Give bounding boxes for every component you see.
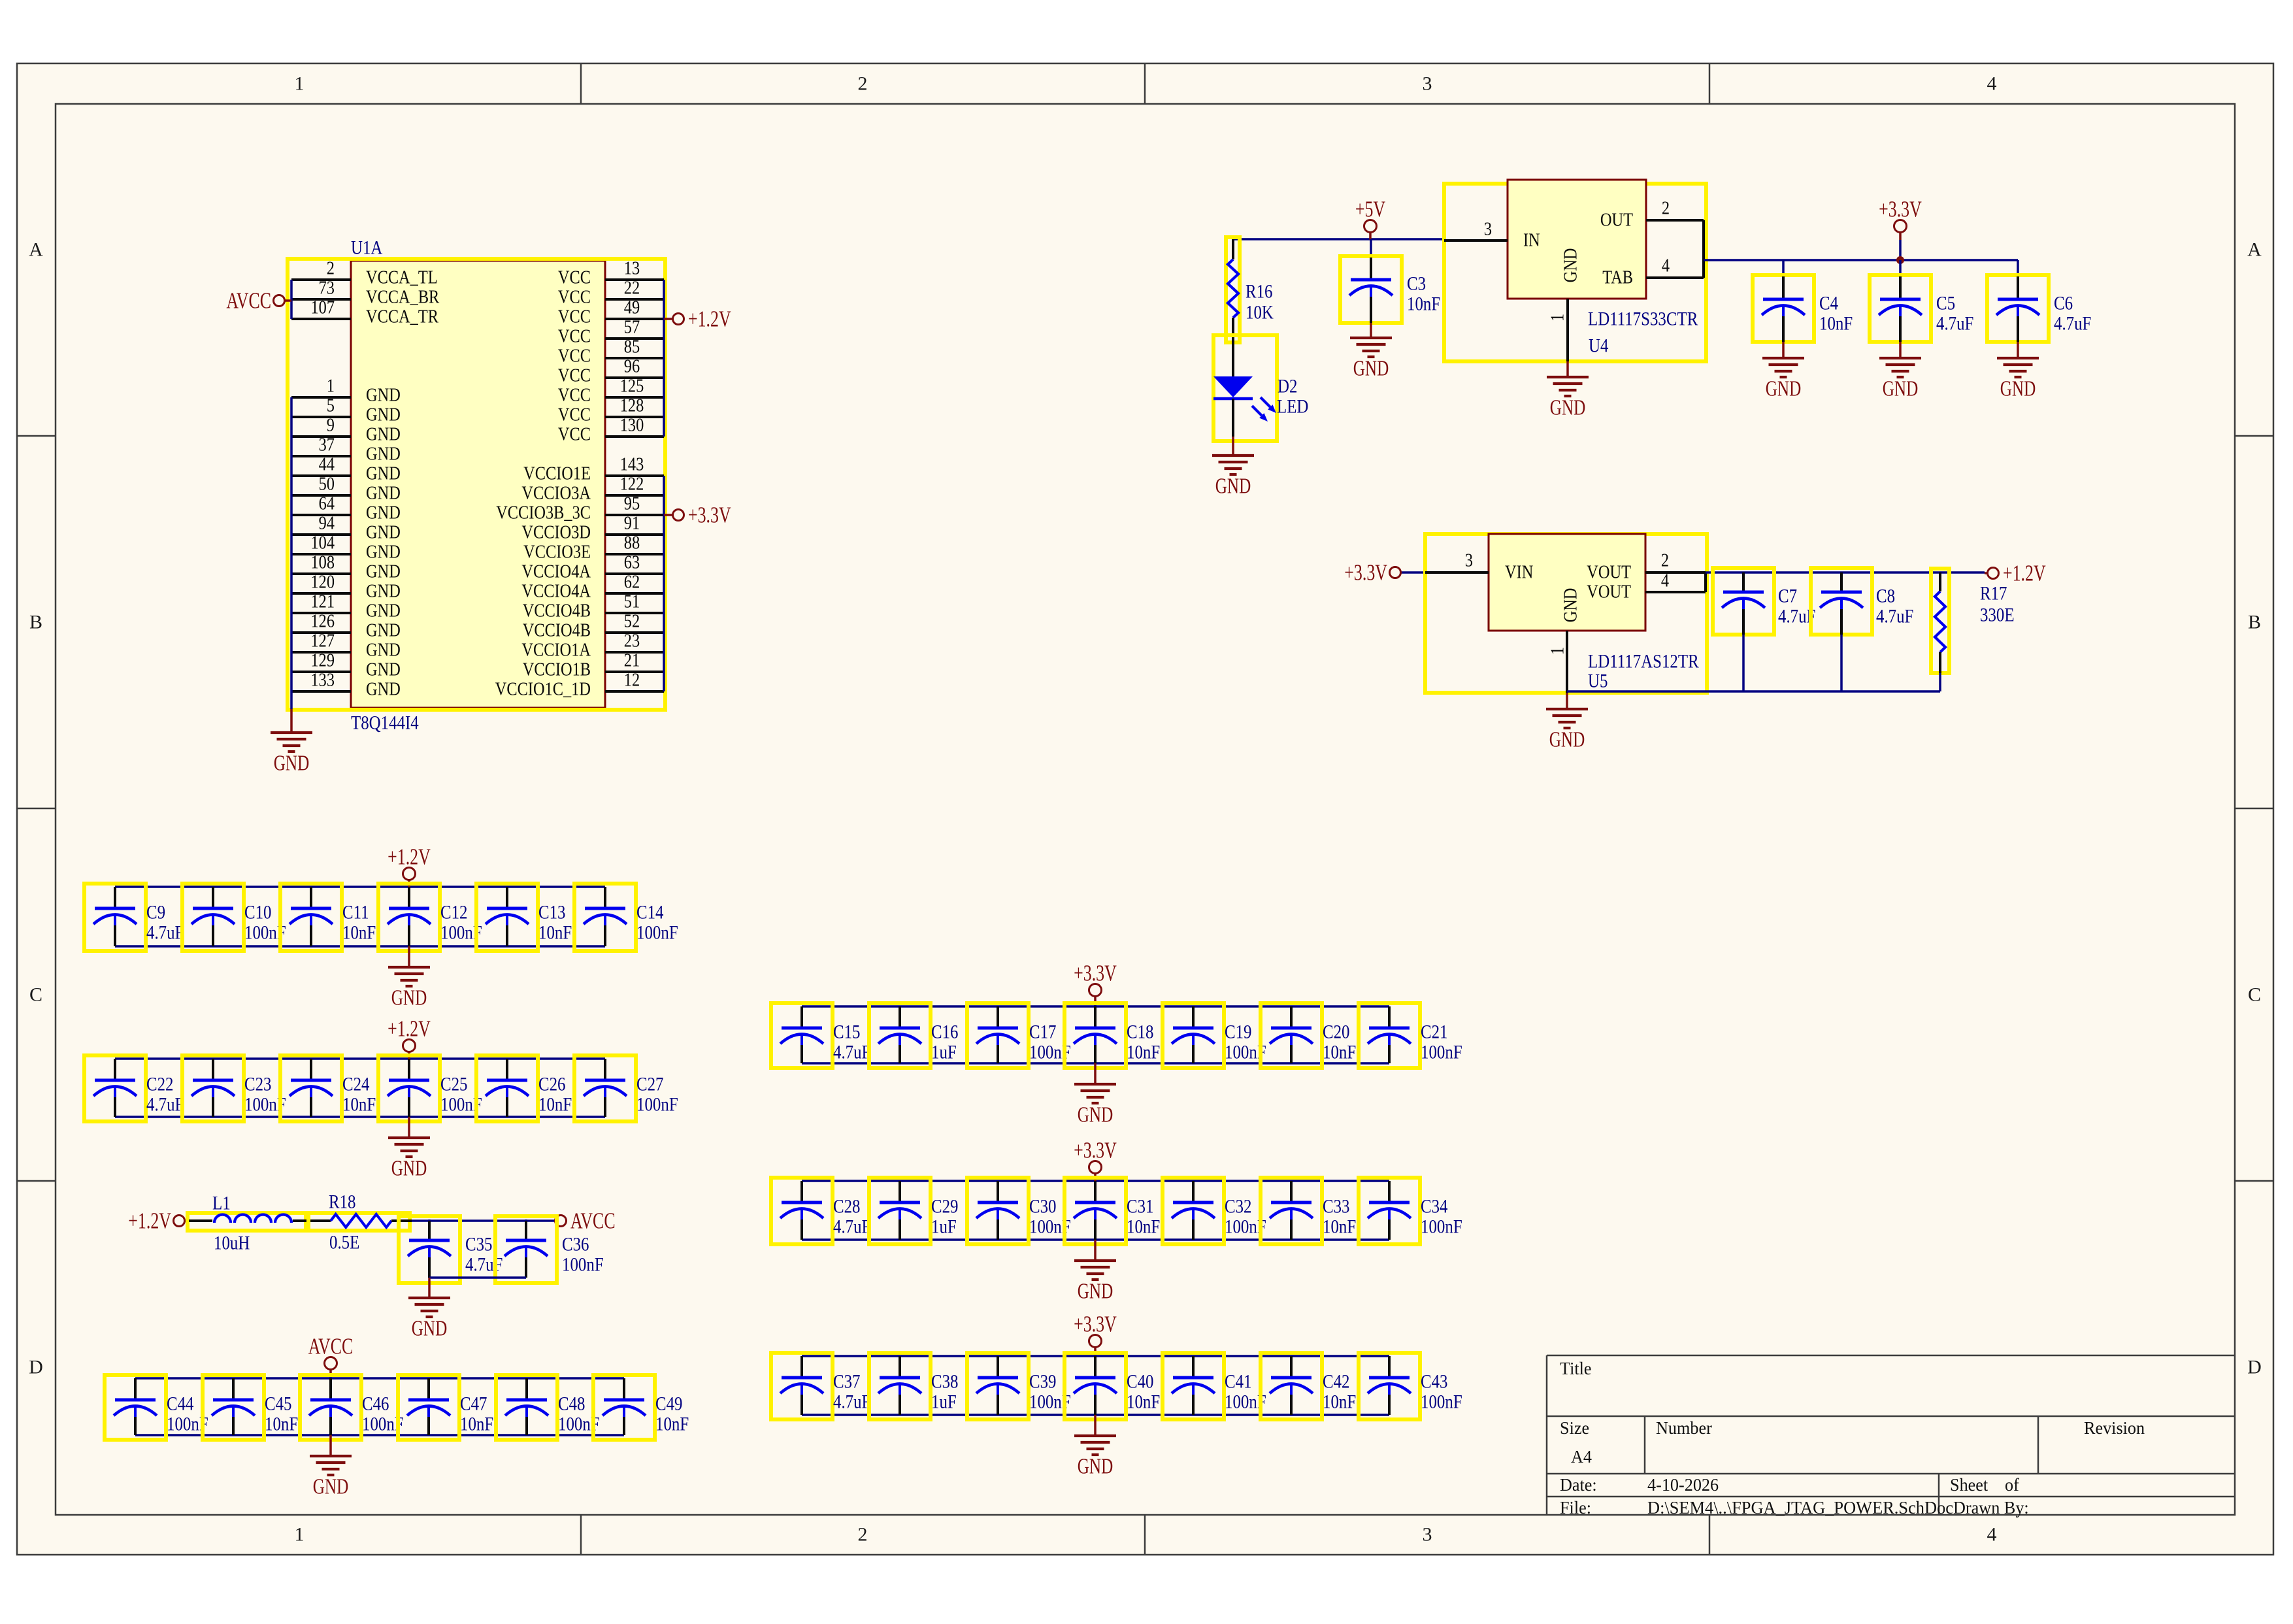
wire C36 feed bbox=[525, 1219, 527, 1221]
svg-text:C26: C26 bbox=[538, 1074, 566, 1095]
svg-text:10nF: 10nF bbox=[538, 922, 572, 944]
svg-text:127: 127 bbox=[311, 631, 335, 652]
svg-text:C17: C17 bbox=[1029, 1021, 1057, 1043]
U1A pin 104 (GND) bbox=[291, 533, 401, 563]
svg-text:AVCC: AVCC bbox=[226, 288, 271, 314]
capacitor C33 10nF bbox=[1261, 1178, 1356, 1244]
U1A pin 128 (VCC) bbox=[558, 396, 664, 425]
svg-text:5: 5 bbox=[327, 396, 335, 416]
svg-text:9: 9 bbox=[327, 416, 335, 436]
svg-text:GND: GND bbox=[313, 1475, 349, 1499]
svg-text:GND: GND bbox=[366, 425, 401, 445]
svg-text:64: 64 bbox=[319, 494, 335, 514]
capacitor C26 10nF bbox=[476, 1055, 572, 1121]
svg-text:+3.3V: +3.3V bbox=[1074, 1312, 1117, 1337]
power port +5V bbox=[1355, 197, 1385, 240]
svg-text:3: 3 bbox=[1423, 1524, 1432, 1546]
wire +3.3V-B bottom rail bbox=[802, 1238, 1389, 1241]
ground GND (AVCC bank) bbox=[310, 1435, 352, 1499]
svg-text:+1.2V: +1.2V bbox=[2003, 561, 2046, 586]
capacitor C15 4.7uF bbox=[771, 1003, 870, 1068]
junction +3.3V rail bbox=[1896, 256, 1904, 264]
svg-text:122: 122 bbox=[620, 474, 644, 495]
capacitor C14 100nF bbox=[574, 884, 678, 951]
wire +1.2V output rail bbox=[1706, 571, 1985, 574]
svg-text:C18: C18 bbox=[1127, 1021, 1154, 1043]
capacitor C25 100nF bbox=[378, 1055, 482, 1121]
power port AVCC (AVCC bank) bbox=[308, 1334, 354, 1379]
wire +3.3V-A bottom rail bbox=[802, 1062, 1389, 1065]
power port +1.2V (+1.2V-B bank) bbox=[388, 1016, 431, 1060]
svg-text:4.7uF: 4.7uF bbox=[833, 1216, 870, 1238]
capacitor C42 10nF bbox=[1261, 1353, 1356, 1419]
svg-text:VOUT: VOUT bbox=[1587, 563, 1631, 583]
svg-text:4: 4 bbox=[1987, 73, 1997, 95]
U5 pin 3 (VIN) bbox=[1425, 551, 1533, 583]
svg-text:4.7uF: 4.7uF bbox=[2054, 313, 2091, 335]
svg-text:C5: C5 bbox=[1936, 293, 1955, 314]
svg-text:File:: File: bbox=[1560, 1498, 1591, 1517]
wire C5 feed bbox=[1899, 260, 1902, 276]
svg-text:52: 52 bbox=[624, 612, 640, 632]
capacitor C37 4.7uF bbox=[771, 1353, 870, 1419]
U4 pin 3 (IN) bbox=[1444, 220, 1540, 251]
svg-text:+3.3V: +3.3V bbox=[1344, 560, 1387, 586]
svg-text:C45: C45 bbox=[265, 1393, 292, 1415]
wire +3.3V bus (U1A right) bbox=[663, 476, 665, 691]
capacitor C13 10nF bbox=[476, 884, 572, 951]
svg-text:10nF: 10nF bbox=[342, 922, 376, 944]
svg-text:VCCIO3B_3C: VCCIO3B_3C bbox=[496, 503, 591, 523]
svg-text:VOUT: VOUT bbox=[1587, 582, 1631, 603]
svg-text:A: A bbox=[2247, 239, 2262, 261]
U1A pin 88 (VCCIO3E) bbox=[523, 533, 664, 563]
svg-text:10nF: 10nF bbox=[1323, 1391, 1356, 1413]
ground GND (+3.3V-C bank) bbox=[1074, 1415, 1116, 1479]
U1A pin 96 (VCC) bbox=[558, 357, 664, 386]
svg-text:C16: C16 bbox=[931, 1021, 959, 1043]
svg-text:C31: C31 bbox=[1127, 1196, 1154, 1218]
svg-text:GND: GND bbox=[1549, 728, 1585, 752]
svg-text:C38: C38 bbox=[931, 1371, 959, 1393]
svg-text:D2: D2 bbox=[1278, 376, 1297, 397]
svg-text:C40: C40 bbox=[1127, 1371, 1154, 1393]
U1A pin 95 (VCCIO3B_3C) bbox=[496, 494, 664, 523]
svg-text:GND: GND bbox=[274, 752, 310, 776]
svg-text:C: C bbox=[2248, 984, 2261, 1006]
svg-text:VCCA_TR: VCCA_TR bbox=[366, 307, 438, 327]
wire +3.3V-A top rail bbox=[802, 1005, 1389, 1008]
power port AVCC (filter output) bbox=[555, 1208, 616, 1234]
svg-text:VCC: VCC bbox=[558, 268, 591, 288]
svg-text:22: 22 bbox=[624, 278, 640, 299]
svg-text:R17: R17 bbox=[1980, 583, 2007, 605]
svg-text:VCC: VCC bbox=[558, 386, 591, 406]
svg-text:Date:: Date: bbox=[1560, 1475, 1597, 1495]
svg-text:GND: GND bbox=[366, 444, 401, 465]
svg-text:C33: C33 bbox=[1323, 1196, 1350, 1218]
capacitor C24 10nF bbox=[280, 1055, 376, 1121]
svg-text:100nF: 100nF bbox=[1421, 1042, 1462, 1063]
U5 pin 4 (VOUT) bbox=[1587, 571, 1706, 603]
svg-text:D: D bbox=[2247, 1357, 2262, 1378]
svg-text:C34: C34 bbox=[1421, 1196, 1448, 1218]
U1A pin 120 (GND) bbox=[291, 572, 401, 602]
U4 pin 1 (GND) bbox=[1548, 248, 1581, 361]
svg-text:94: 94 bbox=[319, 514, 335, 534]
U1A pin 50 (GND) bbox=[291, 474, 401, 504]
svg-text:330E: 330E bbox=[1980, 605, 2015, 626]
ground GND (below U4) bbox=[1547, 361, 1589, 420]
svg-text:10nF: 10nF bbox=[1323, 1216, 1356, 1238]
svg-text:C46: C46 bbox=[362, 1393, 389, 1415]
power port AVCC (U1A) bbox=[226, 288, 291, 314]
svg-text:37: 37 bbox=[319, 435, 335, 456]
svg-text:4-10-2026: 4-10-2026 bbox=[1647, 1475, 1719, 1495]
wire C35 to C36 bottom bbox=[429, 1276, 526, 1279]
LED D2 bbox=[1213, 335, 1308, 441]
svg-text:C39: C39 bbox=[1029, 1371, 1057, 1393]
svg-text:+1.2V: +1.2V bbox=[388, 844, 431, 870]
U1A pin 22 (VCC) bbox=[558, 278, 664, 308]
svg-text:C3: C3 bbox=[1407, 273, 1426, 295]
svg-text:GND: GND bbox=[366, 660, 401, 680]
svg-text:VCCIO4B: VCCIO4B bbox=[523, 621, 591, 641]
svg-text:C21: C21 bbox=[1421, 1021, 1448, 1043]
svg-text:10nF: 10nF bbox=[1407, 293, 1440, 315]
svg-text:21: 21 bbox=[624, 651, 640, 671]
svg-text:23: 23 bbox=[624, 631, 640, 652]
ground GND (+3.3V-A bank) bbox=[1074, 1063, 1116, 1127]
svg-text:Number: Number bbox=[1656, 1418, 1712, 1438]
svg-text:GND: GND bbox=[366, 386, 401, 406]
capacitor C7 4.7uF bbox=[1713, 568, 1815, 635]
svg-text:A4: A4 bbox=[1571, 1447, 1592, 1467]
U1A pin 91 (VCCIO3D) bbox=[521, 514, 664, 543]
svg-text:4.7uF: 4.7uF bbox=[833, 1042, 870, 1063]
svg-text:10nF: 10nF bbox=[1323, 1042, 1356, 1063]
svg-text:GND: GND bbox=[366, 582, 401, 602]
svg-text:85: 85 bbox=[624, 337, 640, 357]
ground GND (below C35) bbox=[408, 1278, 450, 1341]
svg-text:143: 143 bbox=[620, 455, 644, 475]
svg-text:133: 133 bbox=[311, 671, 335, 691]
svg-text:R16: R16 bbox=[1245, 281, 1273, 303]
svg-text:OUT: OUT bbox=[1600, 210, 1633, 231]
svg-text:of: of bbox=[2005, 1475, 2019, 1495]
svg-text:120: 120 bbox=[311, 572, 335, 593]
U1A pin 107 (VCCA_TR) bbox=[291, 298, 438, 327]
svg-text:Size: Size bbox=[1560, 1418, 1589, 1438]
wire GND bus (U1A left) bbox=[290, 397, 293, 709]
svg-text:GND: GND bbox=[366, 680, 401, 700]
svg-text:C44: C44 bbox=[167, 1393, 194, 1415]
svg-text:130: 130 bbox=[620, 416, 644, 436]
svg-text:1uF: 1uF bbox=[931, 1042, 957, 1063]
U1A pin 126 (GND) bbox=[291, 612, 401, 641]
wire C8 to return bbox=[1840, 635, 1843, 691]
U1A pin 52 (VCCIO4B) bbox=[523, 612, 664, 641]
svg-text:100nF: 100nF bbox=[1421, 1216, 1462, 1238]
svg-text:C14: C14 bbox=[636, 902, 664, 923]
svg-text:Title: Title bbox=[1560, 1359, 1592, 1378]
svg-text:+3.3V: +3.3V bbox=[1879, 197, 1922, 222]
svg-text:10uH: 10uH bbox=[214, 1233, 250, 1254]
svg-text:VCC: VCC bbox=[558, 307, 591, 327]
wire U5 VOUT pins join bbox=[1704, 572, 1707, 592]
svg-text:GND: GND bbox=[391, 986, 427, 1010]
svg-text:C23: C23 bbox=[244, 1074, 272, 1095]
svg-text:73: 73 bbox=[319, 278, 335, 299]
svg-text:GND: GND bbox=[366, 464, 401, 484]
svg-text:C12: C12 bbox=[440, 902, 468, 923]
svg-text:VCC: VCC bbox=[558, 327, 591, 347]
capacitor C27 100nF bbox=[574, 1055, 678, 1121]
svg-text:LED: LED bbox=[1277, 396, 1308, 418]
svg-text:C8: C8 bbox=[1876, 586, 1895, 607]
svg-text:GND: GND bbox=[391, 1157, 427, 1181]
ground GND (+1.2V-B bank) bbox=[388, 1117, 430, 1181]
svg-text:+3.3V: +3.3V bbox=[1074, 961, 1117, 986]
U1A pin 133 (GND) bbox=[291, 671, 401, 700]
svg-text:VCCIO3E: VCCIO3E bbox=[523, 542, 591, 563]
svg-text:128: 128 bbox=[620, 396, 644, 416]
svg-text:50: 50 bbox=[319, 474, 335, 495]
svg-text:VCCIO1B: VCCIO1B bbox=[523, 660, 591, 680]
U1A pin 127 (GND) bbox=[291, 631, 401, 661]
U1A pin 125 (VCC) bbox=[558, 376, 664, 406]
svg-text:LD1117AS12TR: LD1117AS12TR bbox=[1588, 651, 1699, 672]
svg-text:+1.2V: +1.2V bbox=[388, 1016, 431, 1042]
ground GND (+3.3V-B bank) bbox=[1074, 1240, 1116, 1304]
svg-text:GND: GND bbox=[366, 562, 401, 582]
svg-text:4: 4 bbox=[1987, 1524, 1997, 1546]
svg-text:51: 51 bbox=[624, 592, 640, 612]
svg-text:4: 4 bbox=[1662, 256, 1670, 276]
capacitor C45 10nF bbox=[203, 1375, 298, 1440]
ground GND (below C6) bbox=[1997, 342, 2039, 401]
capacitor C4 10nF bbox=[1753, 275, 1853, 342]
U1A pin 143 (VCCIO1E) bbox=[523, 455, 664, 484]
U1A pin 49 (VCC) bbox=[558, 298, 664, 327]
wire +5V input rail bbox=[1233, 238, 1444, 240]
svg-text:C35: C35 bbox=[465, 1234, 493, 1255]
capacitor C29 1uF bbox=[869, 1178, 959, 1244]
svg-text:1: 1 bbox=[1548, 314, 1568, 322]
power port +3.3V (regulator output) bbox=[1879, 197, 1922, 261]
svg-text:126: 126 bbox=[311, 612, 335, 632]
svg-text:C: C bbox=[29, 984, 42, 1006]
capacitor C11 10nF bbox=[280, 884, 376, 951]
U1A pin 62 (VCCIO4A) bbox=[521, 572, 664, 602]
svg-text:LD1117S33CTR: LD1117S33CTR bbox=[1588, 308, 1698, 330]
svg-text:C13: C13 bbox=[538, 902, 566, 923]
svg-text:107: 107 bbox=[311, 298, 335, 318]
svg-text:T8Q144I4: T8Q144I4 bbox=[351, 712, 419, 734]
svg-text:3: 3 bbox=[1484, 220, 1492, 240]
svg-text:GND: GND bbox=[1078, 1280, 1114, 1304]
svg-text:4.7uF: 4.7uF bbox=[1936, 313, 1973, 335]
svg-text:GND: GND bbox=[366, 542, 401, 563]
svg-text:2: 2 bbox=[858, 1524, 868, 1546]
capacitor C38 1uF bbox=[869, 1353, 959, 1419]
wire C35 feed bbox=[428, 1219, 431, 1221]
svg-text:C4: C4 bbox=[1819, 293, 1838, 314]
svg-text:GND: GND bbox=[1353, 357, 1389, 381]
U1A pin 64 (GND) bbox=[291, 494, 401, 523]
capacitor C8 4.7uF bbox=[1811, 568, 1913, 635]
svg-text:VCC: VCC bbox=[558, 288, 591, 308]
svg-text:+3.3V: +3.3V bbox=[688, 503, 731, 528]
svg-text:4.7uF: 4.7uF bbox=[146, 1094, 184, 1116]
svg-text:D: D bbox=[29, 1357, 43, 1378]
svg-text:12: 12 bbox=[624, 671, 640, 691]
svg-text:57: 57 bbox=[624, 318, 640, 338]
capacitor C32 100nF bbox=[1163, 1178, 1266, 1244]
svg-text:Drawn By:: Drawn By: bbox=[1953, 1498, 2029, 1517]
svg-text:GND: GND bbox=[1550, 396, 1586, 420]
power port +3.3V (U1A) bbox=[664, 503, 731, 528]
svg-text:100nF: 100nF bbox=[562, 1254, 604, 1276]
wire AVCC bus (U1A left) bbox=[290, 280, 293, 319]
svg-text:VCCIO3D: VCCIO3D bbox=[521, 523, 591, 543]
svg-text:AVCC: AVCC bbox=[570, 1208, 616, 1234]
U1A pin 44 (GND) bbox=[291, 455, 401, 484]
capacitor C43 100nF bbox=[1359, 1353, 1462, 1419]
svg-text:62: 62 bbox=[624, 572, 640, 593]
U1A pin 108 (GND) bbox=[291, 553, 401, 582]
svg-text:VCCIO4A: VCCIO4A bbox=[521, 562, 591, 582]
svg-text:VCCIO4B: VCCIO4B bbox=[523, 601, 591, 621]
svg-text:96: 96 bbox=[624, 357, 640, 377]
svg-text:VCCA_BR: VCCA_BR bbox=[366, 288, 440, 308]
svg-text:GND: GND bbox=[1766, 377, 1802, 401]
svg-text:0.5E: 0.5E bbox=[329, 1232, 359, 1253]
capacitor C41 100nF bbox=[1163, 1353, 1266, 1419]
svg-text:C24: C24 bbox=[342, 1074, 370, 1095]
svg-text:+5V: +5V bbox=[1355, 197, 1385, 222]
svg-text:GND: GND bbox=[366, 621, 401, 641]
U1A pin 1 (GND) bbox=[291, 376, 401, 406]
svg-text:10nF: 10nF bbox=[460, 1414, 493, 1435]
svg-text:1: 1 bbox=[295, 1524, 305, 1546]
svg-text:1: 1 bbox=[295, 73, 305, 95]
svg-text:Sheet: Sheet bbox=[1950, 1475, 1988, 1495]
svg-text:VCC: VCC bbox=[558, 366, 591, 386]
power port +1.2V (filter input) bbox=[128, 1208, 190, 1234]
capacitor C21 100nF bbox=[1359, 1003, 1462, 1068]
svg-text:VIN: VIN bbox=[1505, 563, 1533, 583]
U1A pin 73 (VCCA_BR) bbox=[291, 278, 440, 308]
capacitor C17 100nF bbox=[967, 1003, 1071, 1068]
svg-text:+3.3V: +3.3V bbox=[1074, 1138, 1117, 1163]
svg-text:GND: GND bbox=[366, 523, 401, 543]
wire C3 feed bbox=[1370, 239, 1372, 257]
svg-text:U4: U4 bbox=[1589, 335, 1608, 357]
svg-text:10K: 10K bbox=[1245, 302, 1274, 323]
capacitor C16 1uF bbox=[869, 1003, 959, 1068]
svg-text:GND: GND bbox=[2000, 377, 2036, 401]
svg-text:C30: C30 bbox=[1029, 1196, 1057, 1218]
svg-text:C42: C42 bbox=[1323, 1371, 1350, 1393]
svg-text:C19: C19 bbox=[1225, 1021, 1252, 1043]
svg-text:95: 95 bbox=[624, 494, 640, 514]
svg-text:10nF: 10nF bbox=[1127, 1042, 1160, 1063]
svg-text:VCC: VCC bbox=[558, 425, 591, 445]
U1A pin 57 (VCC) bbox=[558, 318, 664, 347]
svg-text:VCCIO1C_1D: VCCIO1C_1D bbox=[495, 680, 591, 700]
ground GND (below D2) bbox=[1212, 437, 1254, 499]
svg-text:4.7uF: 4.7uF bbox=[833, 1391, 870, 1413]
svg-text:10nF: 10nF bbox=[1819, 313, 1853, 335]
svg-text:125: 125 bbox=[620, 376, 644, 397]
wire +3.3V-B top rail bbox=[802, 1180, 1389, 1182]
power port +1.2V (U5 output) bbox=[1985, 561, 2046, 586]
svg-text:4: 4 bbox=[1661, 571, 1669, 591]
wire AVCC bottom rail bbox=[135, 1434, 624, 1436]
U1A pin 5 (GND) bbox=[291, 396, 401, 425]
svg-text:C10: C10 bbox=[244, 902, 272, 923]
svg-text:3: 3 bbox=[1465, 551, 1473, 571]
svg-text:2: 2 bbox=[1662, 199, 1670, 219]
U1A pin 37 (GND) bbox=[291, 435, 401, 465]
svg-text:VCCIO1A: VCCIO1A bbox=[521, 640, 591, 661]
U4 pin 4 (TAB) bbox=[1602, 256, 1704, 288]
svg-text:13: 13 bbox=[624, 259, 640, 279]
capacitor C39 100nF bbox=[967, 1353, 1071, 1419]
capacitor C48 100nF bbox=[496, 1375, 600, 1440]
power port +1.2V (+1.2V-A bank) bbox=[388, 844, 431, 888]
power port +3.3V (U5 input) bbox=[1344, 560, 1425, 586]
wire C7 to return bbox=[1742, 635, 1745, 691]
svg-text:10nF: 10nF bbox=[1127, 1391, 1160, 1413]
wire C4 feed bbox=[1782, 260, 1785, 276]
capacitor C46 100nF bbox=[300, 1375, 404, 1440]
svg-text:3: 3 bbox=[1423, 73, 1432, 95]
power port +3.3V (+3.3V-B bank) bbox=[1074, 1138, 1117, 1182]
ground GND (below C5) bbox=[1879, 342, 1921, 401]
svg-text:C32: C32 bbox=[1225, 1196, 1252, 1218]
capacitor C44 100nF bbox=[105, 1375, 208, 1440]
capacitor C28 4.7uF bbox=[771, 1178, 870, 1244]
capacitor C18 10nF bbox=[1064, 1003, 1160, 1068]
wire +3.3V-C bottom rail bbox=[802, 1414, 1389, 1416]
U4 pin 2 (OUT) bbox=[1600, 199, 1704, 231]
U5 pin 1 (GND) bbox=[1548, 588, 1581, 693]
wire R18 to AVCC port bbox=[412, 1219, 555, 1222]
capacitor C23 100nF bbox=[182, 1055, 286, 1121]
svg-text:100nF: 100nF bbox=[636, 1094, 678, 1116]
wire +1.2V-B top rail bbox=[115, 1057, 605, 1060]
power port +3.3V (+3.3V-C bank) bbox=[1074, 1312, 1117, 1357]
svg-text:C7: C7 bbox=[1778, 586, 1797, 607]
svg-text:C6: C6 bbox=[2054, 293, 2073, 314]
svg-text:44: 44 bbox=[319, 455, 335, 475]
svg-text:104: 104 bbox=[311, 533, 335, 554]
svg-text:C43: C43 bbox=[1421, 1371, 1448, 1393]
wire U5 bottom return bbox=[1567, 690, 1940, 693]
svg-text:10nF: 10nF bbox=[538, 1094, 572, 1116]
ground GND (+1.2V-A bank) bbox=[388, 946, 430, 1010]
svg-text:1: 1 bbox=[1548, 647, 1568, 655]
svg-text:L1: L1 bbox=[212, 1193, 231, 1214]
svg-text:1: 1 bbox=[327, 376, 335, 397]
ground GND (below U5) bbox=[1546, 693, 1588, 752]
svg-text:GND: GND bbox=[366, 640, 401, 661]
svg-text:49: 49 bbox=[624, 298, 640, 318]
svg-text:R18: R18 bbox=[329, 1191, 356, 1213]
svg-text:+1.2V: +1.2V bbox=[128, 1208, 171, 1234]
